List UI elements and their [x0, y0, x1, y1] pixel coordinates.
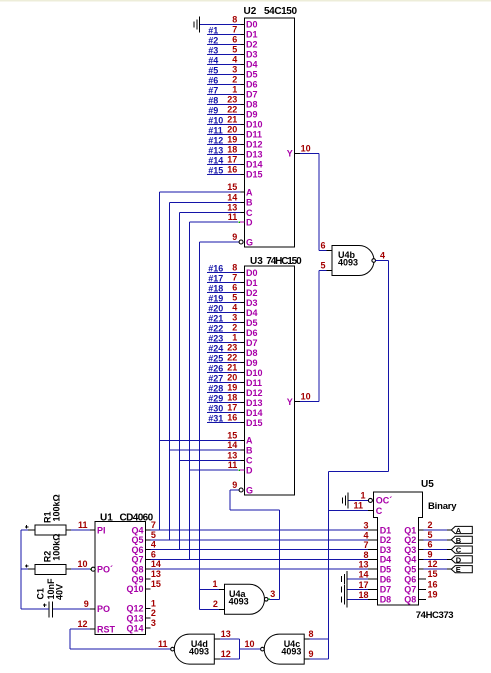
svg-text:4: 4: [363, 530, 368, 540]
svg-text:14: 14: [227, 192, 237, 202]
U3 pin 14 (B) with wire from select bus: [170, 440, 254, 455]
svg-text:Q3: Q3: [404, 545, 416, 555]
svg-text:9: 9: [232, 232, 237, 242]
svg-text:2: 2: [232, 323, 237, 333]
U5 pin 12 (Q5): [404, 559, 447, 574]
U4d input wires: [220, 639, 240, 659]
svg-text:19: 19: [428, 589, 438, 599]
U1 pin 7 (Q4): [131, 520, 377, 535]
U2 pin 4 (D4) with wire: [207, 54, 258, 69]
resistor R2 100k: [21, 534, 71, 575]
svg-text:A: A: [456, 526, 462, 535]
U3 pin 23 (D8) with wire: [207, 343, 258, 358]
U1 pin 3 (Q14): [126, 618, 155, 633]
svg-text:D12: D12: [246, 388, 263, 398]
svg-text:20: 20: [227, 373, 237, 383]
svg-text:#26: #26: [208, 364, 223, 374]
capacitor C1 10nF 40V (polarized): [21, 578, 65, 618]
U2 pin 20 (D11) with wire: [207, 124, 262, 139]
svg-text:14: 14: [227, 440, 237, 450]
svg-text:Q5: Q5: [131, 535, 143, 545]
svg-text:17: 17: [227, 403, 237, 413]
svg-text:D1: D1: [246, 30, 258, 40]
svg-text:PI: PI: [97, 525, 106, 535]
svg-text:11: 11: [78, 520, 88, 530]
svg-text:#30: #30: [208, 404, 223, 414]
svg-text:8: 8: [309, 629, 314, 639]
U2 pin 11 (D) with wire from select bus: [189, 212, 253, 227]
svg-text:D10: D10: [246, 368, 263, 378]
resistor R1 100k: [21, 494, 71, 535]
svg-text:7: 7: [151, 520, 156, 530]
svg-text:8: 8: [232, 263, 237, 273]
output port flag D: [447, 555, 473, 564]
U5 pin 15 (Q6): [404, 569, 437, 584]
svg-text:18: 18: [227, 393, 237, 403]
nand gate U4c 4093 (inverter, mirrored): [261, 629, 314, 664]
U3 designator label: [250, 256, 302, 267]
svg-text:D0: D0: [246, 268, 258, 278]
U2 pin 3 (D5) with wire: [207, 64, 258, 79]
svg-text:#15: #15: [208, 165, 223, 175]
svg-text:15: 15: [227, 430, 237, 440]
svg-text:5: 5: [151, 530, 156, 540]
svg-text:PO: PO: [97, 604, 110, 614]
U3 pin 13 (C) with wire from select bus: [179, 450, 253, 465]
svg-text:C1: C1: [35, 588, 45, 600]
svg-text:B: B: [456, 536, 462, 545]
IC U2 54C150 body: [245, 18, 295, 247]
svg-text:Q10: Q10: [126, 584, 143, 594]
U2 pin 23 (D8) with wire: [207, 94, 258, 109]
svg-text:C: C: [456, 546, 462, 555]
svg-text:11: 11: [353, 501, 363, 511]
svg-text:23: 23: [227, 94, 237, 104]
svg-text:16: 16: [227, 413, 237, 423]
svg-text:#24: #24: [208, 344, 223, 354]
wire select bus B (Q5 to U2.B/U3.B): [169, 202, 171, 539]
svg-text:5: 5: [232, 293, 237, 303]
U1 pin 1 (Q12): [126, 598, 155, 613]
U4c input wires from U4b output net: [310, 639, 329, 659]
svg-text:D14: D14: [246, 408, 263, 418]
svg-text:D10: D10: [246, 120, 263, 130]
U3 pin 15 (A) with wire from select bus: [160, 430, 254, 445]
page top edge strip: [0, 0, 491, 2]
svg-text:D5: D5: [380, 565, 392, 575]
svg-text:A: A: [246, 436, 253, 446]
svg-text:D4: D4: [380, 555, 392, 565]
svg-text:3: 3: [232, 64, 237, 74]
svg-text:Y: Y: [287, 397, 293, 407]
svg-text:D3: D3: [380, 545, 392, 555]
svg-text:#3: #3: [208, 45, 218, 55]
U2 pin 10 (Y output) wire to U4b input 6: [287, 143, 327, 250]
svg-text:D2: D2: [380, 535, 392, 545]
U3 pin 9 (G enable, inverted) wire from U4a output: [230, 480, 280, 599]
U4b pin 4 output wire to U5 clock and U4c: [329, 251, 389, 660]
svg-text:5: 5: [320, 260, 325, 270]
svg-text:RST: RST: [97, 625, 116, 635]
svg-text:1: 1: [360, 490, 365, 500]
svg-text:19: 19: [227, 134, 237, 144]
nand gate U4a 4093 (inverter for U3 G): [212, 579, 268, 614]
svg-text:D9: D9: [246, 358, 258, 368]
svg-text:1: 1: [151, 598, 156, 608]
svg-text:19: 19: [227, 383, 237, 393]
svg-text:D9: D9: [246, 110, 258, 120]
svg-text:Q8: Q8: [131, 565, 143, 575]
svg-text:Binary: Binary: [428, 501, 457, 512]
svg-text:D7: D7: [246, 90, 258, 100]
svg-text:22: 22: [227, 353, 237, 363]
svg-text:1: 1: [212, 579, 217, 589]
svg-text:Q6: Q6: [131, 545, 143, 555]
svg-text:10: 10: [301, 392, 311, 402]
svg-text:13: 13: [227, 203, 237, 213]
svg-text:13: 13: [227, 450, 237, 460]
svg-text:11: 11: [158, 639, 168, 649]
U2 pin 21 (D10) with wire: [207, 114, 263, 129]
svg-text:E: E: [456, 565, 461, 574]
svg-text:18: 18: [358, 590, 368, 600]
svg-text:9: 9: [309, 649, 314, 659]
U2 pin 19 (D12) with wire: [207, 134, 263, 149]
U1 pin 6 (Q7): [131, 549, 377, 564]
U5 pin 7 (D3): [363, 540, 391, 555]
svg-text:D7: D7: [246, 338, 258, 348]
svg-text:Q14: Q14: [126, 623, 143, 633]
nand gate U4b 4093 (combines U2.Y and U3.Y): [320, 240, 375, 275]
svg-text:74HC373: 74HC373: [416, 610, 453, 621]
svg-text:2: 2: [213, 599, 218, 609]
U5 pin 11 (C latch enable) wire from U4b output net: [329, 501, 383, 516]
svg-text:D11: D11: [246, 378, 262, 388]
svg-text:D13: D13: [246, 398, 263, 408]
U1 pin 10 (PO' inverted): [66, 559, 113, 574]
svg-text:#1: #1: [208, 25, 218, 35]
U5 pin 17 (D7): [347, 580, 391, 595]
svg-text:D8: D8: [380, 595, 392, 605]
svg-text:12: 12: [77, 619, 87, 629]
U3 pin 20 (D11) with wire: [207, 373, 262, 388]
svg-text:15: 15: [428, 569, 438, 579]
wire RC rail: [20, 530, 22, 609]
svg-text:Y: Y: [287, 149, 293, 159]
U5 pin 18 (D8): [347, 590, 391, 605]
svg-text:D3: D3: [246, 50, 258, 60]
output port flag A: [447, 526, 473, 535]
U2 pin 22 (D9) with wire: [207, 104, 258, 119]
svg-text:D13: D13: [246, 150, 263, 160]
U1 pin 4 (Q6): [131, 540, 377, 555]
svg-text:3: 3: [232, 313, 237, 323]
svg-text:U2: U2: [244, 6, 257, 17]
U5 pin 8 (D4): [363, 550, 391, 565]
svg-text:10: 10: [77, 559, 87, 569]
svg-text:D8: D8: [246, 348, 258, 358]
svg-text:9: 9: [428, 549, 433, 559]
wire select bus C (Q6 to U2.C/U3.C): [178, 213, 180, 550]
svg-text:11: 11: [228, 460, 238, 470]
svg-text:4093: 4093: [281, 646, 301, 656]
svg-text:17: 17: [358, 580, 368, 590]
svg-text:#16: #16: [208, 264, 223, 274]
svg-text:6: 6: [428, 540, 433, 550]
U2 pin 15 (A) with wire from select bus: [160, 182, 254, 197]
svg-text:Q7: Q7: [404, 585, 416, 595]
U3 pin 7 (D1) with wire: [207, 273, 258, 288]
svg-text:17: 17: [227, 154, 237, 164]
U3 pin 1 (D7) with wire: [207, 333, 258, 348]
U2 pin 18 (D13) with wire: [207, 144, 263, 159]
U5 pin 5 (Q2): [404, 530, 447, 545]
svg-text:16: 16: [428, 579, 438, 589]
svg-text:D15: D15: [246, 170, 263, 180]
svg-text:12: 12: [221, 649, 231, 659]
svg-text:7: 7: [363, 540, 368, 550]
svg-text:G: G: [246, 237, 253, 247]
U3 pin 16 (D15) with wire: [207, 413, 263, 428]
wire select bus A (Q4 to U2.A/U3.A): [159, 192, 161, 530]
svg-text:#18: #18: [208, 284, 223, 294]
svg-text:#4: #4: [208, 55, 218, 65]
U3 pin 22 (D9) with wire: [207, 353, 258, 368]
svg-text:C: C: [246, 456, 253, 466]
svg-text:Q7: Q7: [131, 555, 143, 565]
U2 pin 13 (C) with wire from select bus: [179, 203, 253, 218]
U5 pin 9 (Q4): [404, 549, 447, 564]
svg-text:D12: D12: [246, 140, 263, 150]
svg-text:D5: D5: [246, 70, 258, 80]
svg-text:10: 10: [244, 639, 254, 649]
svg-text:#14: #14: [208, 155, 223, 165]
svg-text:40V: 40V: [55, 584, 65, 600]
svg-text:Q5: Q5: [404, 565, 416, 575]
U2 pin 8 (D0) with wire: [200, 14, 258, 29]
output port flag E: [447, 565, 473, 574]
svg-text:7: 7: [232, 273, 237, 283]
U3 pin 2 (D6) with wire: [207, 323, 258, 338]
svg-text:9: 9: [232, 480, 237, 490]
svg-text:D14: D14: [246, 160, 263, 170]
svg-text:9: 9: [84, 599, 89, 609]
svg-text:8: 8: [363, 550, 368, 560]
U2 pin 2 (D6) with wire: [207, 74, 258, 89]
svg-text:15: 15: [151, 579, 161, 589]
wire G net (Q8 to U2.G and U4a inputs): [199, 242, 219, 609]
U5 pin 4 (D2): [363, 530, 391, 545]
svg-text:4: 4: [151, 540, 156, 550]
svg-text:11: 11: [228, 212, 238, 222]
svg-text:6: 6: [320, 240, 325, 250]
U3 pin 18 (D13) with wire: [207, 393, 263, 408]
U3 pin 3 (D5) with wire: [207, 313, 258, 328]
svg-text:D2: D2: [246, 288, 258, 298]
svg-text:7: 7: [232, 24, 237, 34]
svg-text:2: 2: [151, 608, 156, 618]
U5 pin 14 (D6): [347, 570, 391, 585]
svg-text:G: G: [246, 485, 253, 495]
U2 pin 1 (D7) with wire: [207, 84, 258, 99]
U1 pin 5 (Q5): [131, 530, 377, 545]
U5 designator labels: [416, 479, 457, 621]
U5 pin 6 (Q3): [404, 540, 447, 555]
svg-text:#10: #10: [208, 115, 223, 125]
svg-text:13: 13: [151, 569, 161, 579]
svg-text:#27: #27: [208, 374, 223, 384]
U5 pin 3 (D1): [363, 521, 391, 536]
svg-text:5: 5: [232, 44, 237, 54]
svg-text:Q2: Q2: [404, 535, 416, 545]
U1 pin 11 (PI): [71, 520, 106, 535]
U1 pin 2 (Q13): [126, 608, 155, 623]
svg-text:2: 2: [232, 74, 237, 84]
svg-text:74HC150: 74HC150: [266, 256, 302, 267]
svg-text:D15: D15: [246, 418, 263, 428]
svg-text:22: 22: [227, 104, 237, 114]
svg-text:#7: #7: [208, 85, 218, 95]
U2 pin 16 (D15) with wire: [207, 164, 263, 179]
svg-text:D11: D11: [246, 130, 262, 140]
svg-text:Q13: Q13: [126, 614, 143, 624]
svg-text:Q8: Q8: [404, 595, 416, 605]
svg-text:3: 3: [151, 618, 156, 628]
U1 pin 14 (Q8): [131, 559, 377, 574]
svg-text:23: 23: [227, 343, 237, 353]
svg-text:U3: U3: [250, 256, 263, 267]
svg-text:#2: #2: [208, 35, 218, 45]
svg-text:#22: #22: [208, 324, 223, 334]
U5 pin 1 (OC' inverted) grounded: [343, 490, 393, 508]
U1 pin 9 (PO): [52, 599, 110, 614]
U3 pin 4 (D4) with wire: [207, 303, 258, 318]
svg-text:1: 1: [232, 333, 237, 343]
svg-text:4: 4: [232, 54, 237, 64]
svg-text:14: 14: [358, 570, 368, 580]
svg-text:Q9: Q9: [131, 574, 143, 584]
svg-text:1: 1: [232, 84, 237, 94]
svg-text:U5: U5: [421, 479, 434, 490]
U2 pin 5 (D3) with wire: [207, 44, 258, 59]
U2 designator label: [244, 6, 298, 17]
svg-text:14: 14: [151, 559, 161, 569]
svg-text:Q1: Q1: [404, 525, 416, 535]
svg-text:A: A: [246, 188, 253, 198]
nand gate U4d 4093 (inverter, mirrored, drives RST): [158, 629, 231, 664]
svg-text:4093: 4093: [338, 258, 358, 268]
U3 pin 10 (Y output) wire to U4b input 5: [287, 270, 327, 406]
svg-text:#25: #25: [208, 354, 223, 364]
U4a pin 3 output wire: [268, 589, 280, 600]
IC U1 CD4060 body: [95, 521, 146, 634]
svg-text:Q4: Q4: [131, 525, 143, 535]
U3 pin 11 (D) with wire from select bus: [189, 460, 253, 475]
U2 pin 17 (D14) with wire: [207, 154, 263, 169]
svg-text:#28: #28: [208, 384, 223, 394]
svg-text:D5: D5: [246, 318, 258, 328]
svg-text:B: B: [246, 446, 253, 456]
output port flag B: [447, 536, 473, 545]
svg-text:D: D: [456, 555, 462, 564]
svg-text:C: C: [376, 506, 383, 516]
svg-text:D4: D4: [246, 60, 258, 70]
svg-text:#23: #23: [208, 334, 223, 344]
U3 pin 19 (D12) with wire: [207, 383, 263, 398]
output port flag C: [447, 546, 473, 555]
svg-text:D6: D6: [246, 80, 258, 90]
U5 pin 16 (Q7): [404, 579, 437, 594]
svg-text:#6: #6: [208, 75, 218, 85]
svg-text:C: C: [246, 208, 253, 218]
svg-text:#29: #29: [208, 394, 223, 404]
IC U5 74HC373 body: [374, 492, 423, 605]
svg-text:#21: #21: [208, 314, 223, 324]
svg-text:#9: #9: [208, 105, 218, 115]
svg-text:5: 5: [428, 530, 433, 540]
svg-text:D8: D8: [246, 100, 258, 110]
svg-text:D0: D0: [246, 20, 258, 30]
U3 pin 21 (D10) with wire: [207, 363, 263, 378]
U2 pin 7 (D1) with wire: [207, 24, 258, 39]
U1 pin 12 (RST) wire from U4d output: [70, 619, 171, 649]
U2 pin 9 (G enable, inverted) with wire: [199, 232, 253, 247]
svg-text:12: 12: [428, 559, 438, 569]
svg-text:Q12: Q12: [126, 604, 143, 614]
svg-text:B: B: [246, 198, 253, 208]
svg-text:D1: D1: [380, 525, 392, 535]
U3 pin 6 (D2) with wire: [207, 283, 258, 298]
U5 pin 2 (Q1): [404, 520, 447, 535]
svg-text:#31: #31: [208, 414, 223, 424]
svg-text:Q6: Q6: [404, 574, 416, 584]
svg-text:21: 21: [227, 363, 237, 373]
svg-text:PO´: PO´: [97, 565, 113, 575]
U3 pin 17 (D14) with wire: [207, 403, 263, 418]
U1 pin 15 (Q10): [126, 579, 160, 594]
U3 pin 8 (D0) with wire: [207, 263, 258, 278]
svg-text:6: 6: [232, 283, 237, 293]
svg-text:16: 16: [227, 164, 237, 174]
svg-text:13: 13: [221, 629, 231, 639]
svg-text:#20: #20: [208, 304, 223, 314]
U1 pin 13 (Q9): [131, 569, 160, 584]
svg-text:OC´: OC´: [376, 496, 393, 506]
svg-text:#13: #13: [208, 145, 223, 155]
svg-text:6: 6: [232, 34, 237, 44]
svg-text:D6: D6: [380, 574, 392, 584]
svg-text:3: 3: [270, 589, 275, 599]
svg-text:#19: #19: [208, 294, 223, 304]
svg-text:4: 4: [232, 303, 237, 313]
svg-text:D1: D1: [246, 278, 258, 288]
svg-text:D: D: [246, 466, 253, 476]
svg-text:8: 8: [232, 14, 237, 24]
svg-text:4093: 4093: [229, 597, 249, 607]
svg-text:100kΩ: 100kΩ: [51, 534, 61, 561]
svg-text:D6: D6: [246, 328, 258, 338]
wire select bus D (Q7 to U2.D/U3.D): [188, 222, 190, 559]
svg-text:3: 3: [363, 521, 368, 531]
svg-text:#5: #5: [208, 65, 218, 75]
svg-text:CD4060: CD4060: [120, 513, 154, 524]
svg-text:4093: 4093: [189, 646, 209, 656]
svg-text:4: 4: [380, 251, 385, 261]
svg-text:D2: D2: [246, 40, 258, 50]
svg-text:D7: D7: [380, 585, 392, 595]
svg-text:13: 13: [358, 560, 368, 570]
svg-text:100kΩ: 100kΩ: [51, 494, 61, 521]
